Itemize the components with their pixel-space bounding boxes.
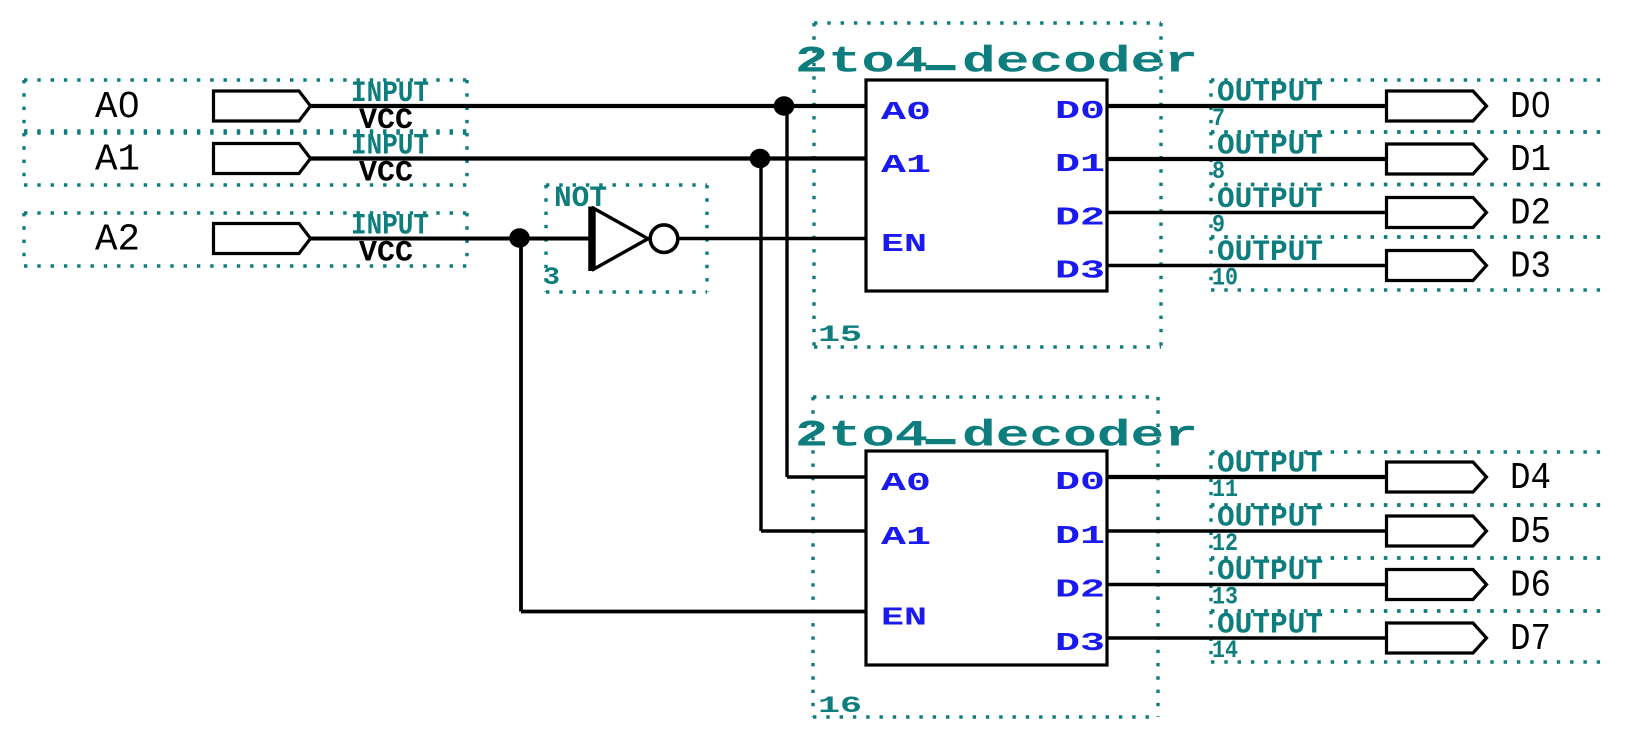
svg-text:A2: A2 <box>95 219 140 262</box>
svg-text:16: 16 <box>818 693 862 719</box>
svg-text:D6: D6 <box>1510 565 1551 608</box>
svg-text:3: 3 <box>543 263 560 292</box>
svg-text:2to4: 2to4 <box>795 416 928 458</box>
svg-text:EN: EN <box>881 603 927 633</box>
svg-text:D2: D2 <box>1055 575 1105 605</box>
svg-text:decoder: decoder <box>962 42 1198 84</box>
svg-text:A1: A1 <box>881 150 931 180</box>
svg-text:D7: D7 <box>1510 618 1551 661</box>
svg-text:D0: D0 <box>1055 467 1105 497</box>
svg-text:8: 8 <box>1212 157 1225 186</box>
svg-text:10: 10 <box>1212 264 1238 293</box>
svg-text:VCC: VCC <box>359 157 413 191</box>
svg-text:A1: A1 <box>881 522 931 552</box>
svg-text:A0: A0 <box>95 86 140 129</box>
svg-text:D0: D0 <box>1055 96 1105 126</box>
svg-text:D3: D3 <box>1510 246 1551 289</box>
svg-text:13: 13 <box>1212 583 1238 612</box>
svg-text:A0: A0 <box>881 468 931 498</box>
svg-text:decoder: decoder <box>962 416 1198 458</box>
svg-text:OUTPUT: OUTPUT <box>1217 130 1323 164</box>
svg-text:2to4: 2to4 <box>795 42 928 84</box>
svg-text:D5: D5 <box>1510 511 1551 554</box>
svg-text:15: 15 <box>818 322 862 348</box>
svg-text:D1: D1 <box>1055 521 1105 551</box>
svg-text:D1: D1 <box>1510 139 1551 182</box>
svg-text:NOT: NOT <box>554 182 607 216</box>
svg-text:D4: D4 <box>1510 457 1551 500</box>
svg-text:OUTPUT: OUTPUT <box>1217 77 1323 111</box>
svg-text:D3: D3 <box>1055 256 1105 286</box>
svg-text:VCC: VCC <box>359 237 413 271</box>
svg-text:EN: EN <box>881 229 927 259</box>
svg-text:12: 12 <box>1212 529 1238 558</box>
svg-text:D0: D0 <box>1510 86 1551 129</box>
svg-text:D2: D2 <box>1055 203 1105 233</box>
svg-text:14: 14 <box>1212 636 1238 665</box>
svg-text:D1: D1 <box>1055 149 1105 179</box>
svg-text:D3: D3 <box>1055 628 1105 658</box>
svg-text:11: 11 <box>1212 475 1238 504</box>
svg-text:A0: A0 <box>881 97 931 127</box>
svg-text:D2: D2 <box>1510 193 1551 236</box>
svg-text:OUTPUT: OUTPUT <box>1217 183 1323 217</box>
svg-text:A1: A1 <box>95 139 140 182</box>
